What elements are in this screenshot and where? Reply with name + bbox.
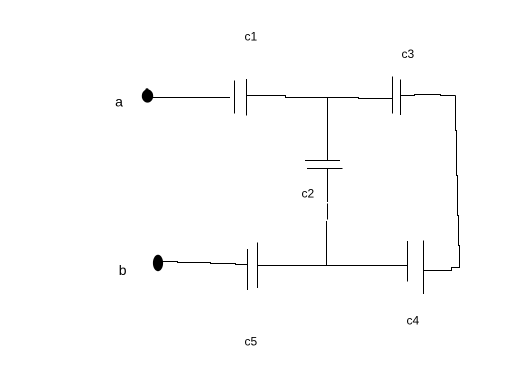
wire c2 to bottom wire	[327, 169, 329, 203]
svg-text:c5: c5	[245, 335, 258, 349]
svg-text:c4: c4	[407, 314, 420, 328]
wire right vertical	[455, 96, 457, 132]
capacitor C2 plate top	[305, 160, 340, 162]
capacitor C1 plate left	[234, 81, 236, 114]
capacitor C2 plate bottom	[307, 168, 343, 170]
wire c4 to right vertical	[424, 268, 460, 271]
terminal node a	[142, 89, 153, 102]
capacitor C1 plate right	[246, 79, 248, 116]
svg-text:c1: c1	[245, 30, 258, 44]
terminal node b	[153, 255, 163, 271]
wire b to c5	[163, 261, 178, 263]
capacitor C5 plate left	[247, 249, 249, 290]
svg-text:c2: c2	[302, 187, 315, 201]
wire a to c1	[152, 97, 230, 99]
wire c5 to junction to c4	[258, 265, 408, 267]
capacitor C4 plate right	[423, 241, 425, 295]
svg-text:b: b	[119, 262, 127, 278]
capacitor C5 plate right	[257, 243, 259, 289]
wire c1 to junction to c3	[247, 96, 393, 99]
svg-text:c3: c3	[402, 47, 415, 61]
capacitor C3 plate right	[400, 80, 402, 116]
svg-text:a: a	[115, 94, 123, 110]
wire junction down to c2	[327, 98, 329, 161]
wire c3 to right corner	[401, 95, 456, 96]
capacitor C3 plate left	[392, 77, 394, 114]
capacitor C4 plate left	[407, 241, 409, 282]
